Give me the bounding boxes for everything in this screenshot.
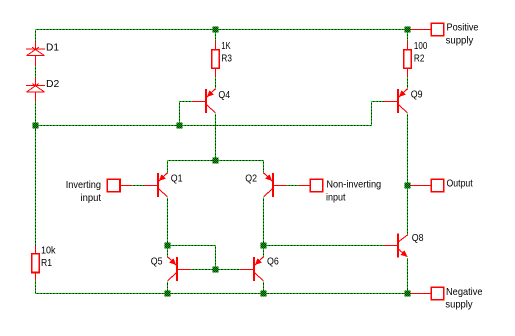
svg-text:D2: D2 xyxy=(46,78,59,90)
node Q2-Q6 junction xyxy=(261,243,267,249)
pin non-inverting input terminal xyxy=(298,185,310,187)
wire Q4 base link xyxy=(180,102,193,126)
label Q6 xyxy=(267,255,279,267)
svg-text:Q8: Q8 xyxy=(412,232,424,244)
label output xyxy=(447,178,473,190)
wire left rail R1 to bottom corner xyxy=(35,281,37,294)
label R2 value 100 xyxy=(414,40,428,52)
label R1 xyxy=(41,257,52,269)
label R3 xyxy=(221,52,232,64)
svg-text:100: 100 xyxy=(414,40,428,52)
svg-text:Q1: Q1 xyxy=(171,172,183,184)
svg-text:Q6: Q6 xyxy=(267,255,279,267)
node left rail base-feed junction xyxy=(33,123,39,129)
wire tail crossbar xyxy=(168,160,264,162)
resistor R2 xyxy=(404,50,412,68)
terminal inverting input xyxy=(107,179,120,192)
svg-text:input: input xyxy=(81,192,102,204)
node Q5 bottom rail junction xyxy=(165,291,171,297)
node Q6 bottom rail junction xyxy=(261,291,267,297)
transistor Q4 xyxy=(192,89,215,113)
wire Q9 collector to output node xyxy=(407,113,409,185)
svg-text:D1: D1 xyxy=(46,42,59,54)
wire Q5 emitter up xyxy=(167,246,169,258)
svg-text:Q2: Q2 xyxy=(245,172,257,184)
wire tail to Q2 emitter xyxy=(263,161,265,173)
diode D1 xyxy=(26,47,45,55)
wire Q2 collector down xyxy=(263,198,265,246)
pin R3 leads xyxy=(215,41,217,77)
wire Q2 base to non-inverting input xyxy=(287,185,298,187)
label Q4 xyxy=(218,89,230,101)
pin D1 top xyxy=(35,42,37,50)
svg-text:Non-inverting: Non-inverting xyxy=(326,178,381,190)
pin R1 leads xyxy=(35,246,37,281)
pin D1 bottom xyxy=(35,56,37,66)
wire base feed row xyxy=(36,125,372,127)
node R3 top rail junction xyxy=(213,27,219,33)
transistor Q9 xyxy=(384,89,407,113)
svg-text:Positive: Positive xyxy=(447,22,479,34)
wire R3 to Q4 emitter xyxy=(215,77,217,89)
label Q2 xyxy=(245,172,257,184)
pin D2 top xyxy=(35,78,37,86)
label positive supply xyxy=(446,22,479,47)
wire inverting input to Q1 base xyxy=(132,185,144,187)
wire Q5 collector down xyxy=(167,282,169,294)
node negative supply bottom junction xyxy=(405,291,411,297)
svg-text:R2: R2 xyxy=(414,52,425,64)
label Q9 xyxy=(411,89,423,101)
svg-text:Inverting: Inverting xyxy=(66,179,101,191)
wire left rail D2 to R1 xyxy=(35,102,37,246)
svg-text:Q4: Q4 xyxy=(218,89,230,101)
label Q5 xyxy=(151,255,163,267)
wire base feed riser to Q9 xyxy=(372,102,385,126)
pin inverting input terminal xyxy=(120,185,132,187)
svg-text:Negative: Negative xyxy=(446,286,483,298)
label R2 xyxy=(414,52,425,64)
transistor Q2 xyxy=(264,173,287,197)
svg-text:R3: R3 xyxy=(221,52,232,64)
wire Q6 emitter up xyxy=(263,246,265,258)
terminal negative supply xyxy=(431,287,444,300)
label Q1 xyxy=(171,172,183,184)
terminal output xyxy=(431,179,444,192)
pin R2 leads xyxy=(407,41,409,77)
resistor R3 xyxy=(212,50,220,68)
node mirror base junction xyxy=(213,267,219,273)
node output junction xyxy=(405,183,411,189)
svg-text:supply: supply xyxy=(446,34,474,46)
node Q1-Q5 junction xyxy=(165,243,171,249)
wire bottom supply rail xyxy=(36,293,408,295)
pin negative supply terminal xyxy=(410,293,431,295)
wire Q1 collector down xyxy=(167,198,169,246)
svg-text:input: input xyxy=(326,192,346,204)
svg-text:Q9: Q9 xyxy=(411,89,423,101)
label R3 value 1K xyxy=(221,40,230,52)
pin positive supply terminal xyxy=(410,29,431,31)
wire Q6 collector down xyxy=(263,282,265,294)
label D2 xyxy=(46,78,59,90)
transistor Q8 xyxy=(384,234,407,258)
resistor R1 xyxy=(32,254,40,273)
wire Q2 collector to Q8 base xyxy=(264,245,385,247)
wire output node to Q8 collector xyxy=(407,186,409,235)
wire tail to Q1 emitter xyxy=(167,161,169,173)
wire mirror link xyxy=(168,246,216,270)
wire Q8 emitter down xyxy=(407,258,409,294)
node Q4 base junction xyxy=(177,123,183,129)
svg-text:1K: 1K xyxy=(221,40,230,52)
node positive supply junction xyxy=(405,27,411,33)
transistor Q6 xyxy=(240,257,263,281)
label negative supply xyxy=(445,286,482,311)
wire R3 top xyxy=(215,30,217,42)
terminal non-inverting input xyxy=(310,179,323,192)
label R1 value 10k xyxy=(41,244,56,256)
svg-text:Output: Output xyxy=(447,178,473,190)
svg-text:10k: 10k xyxy=(41,244,56,256)
label Q8 xyxy=(412,232,424,244)
label D1 xyxy=(46,42,59,54)
wire mirror base row xyxy=(191,269,240,271)
label inverting input xyxy=(66,179,101,204)
wire left rail above D1 xyxy=(35,30,37,42)
svg-text:R1: R1 xyxy=(41,257,52,269)
svg-text:Q5: Q5 xyxy=(151,255,163,267)
terminal positive supply xyxy=(431,23,444,36)
diode D2 xyxy=(26,84,45,92)
node tail junction xyxy=(213,158,219,164)
wire top supply rail xyxy=(36,29,408,31)
transistor Q1 xyxy=(144,173,167,197)
label non-inverting input xyxy=(326,178,381,203)
svg-text:supply: supply xyxy=(445,299,473,311)
wire R2 to Q9 emitter xyxy=(407,77,409,89)
wire between D1 and D2 xyxy=(35,66,37,78)
pin D2 bottom xyxy=(35,92,37,102)
transistor Q5 xyxy=(168,257,191,281)
wire Q4 collector to tail xyxy=(215,113,217,160)
wire R2 top xyxy=(407,30,409,42)
pin output terminal xyxy=(410,185,431,187)
